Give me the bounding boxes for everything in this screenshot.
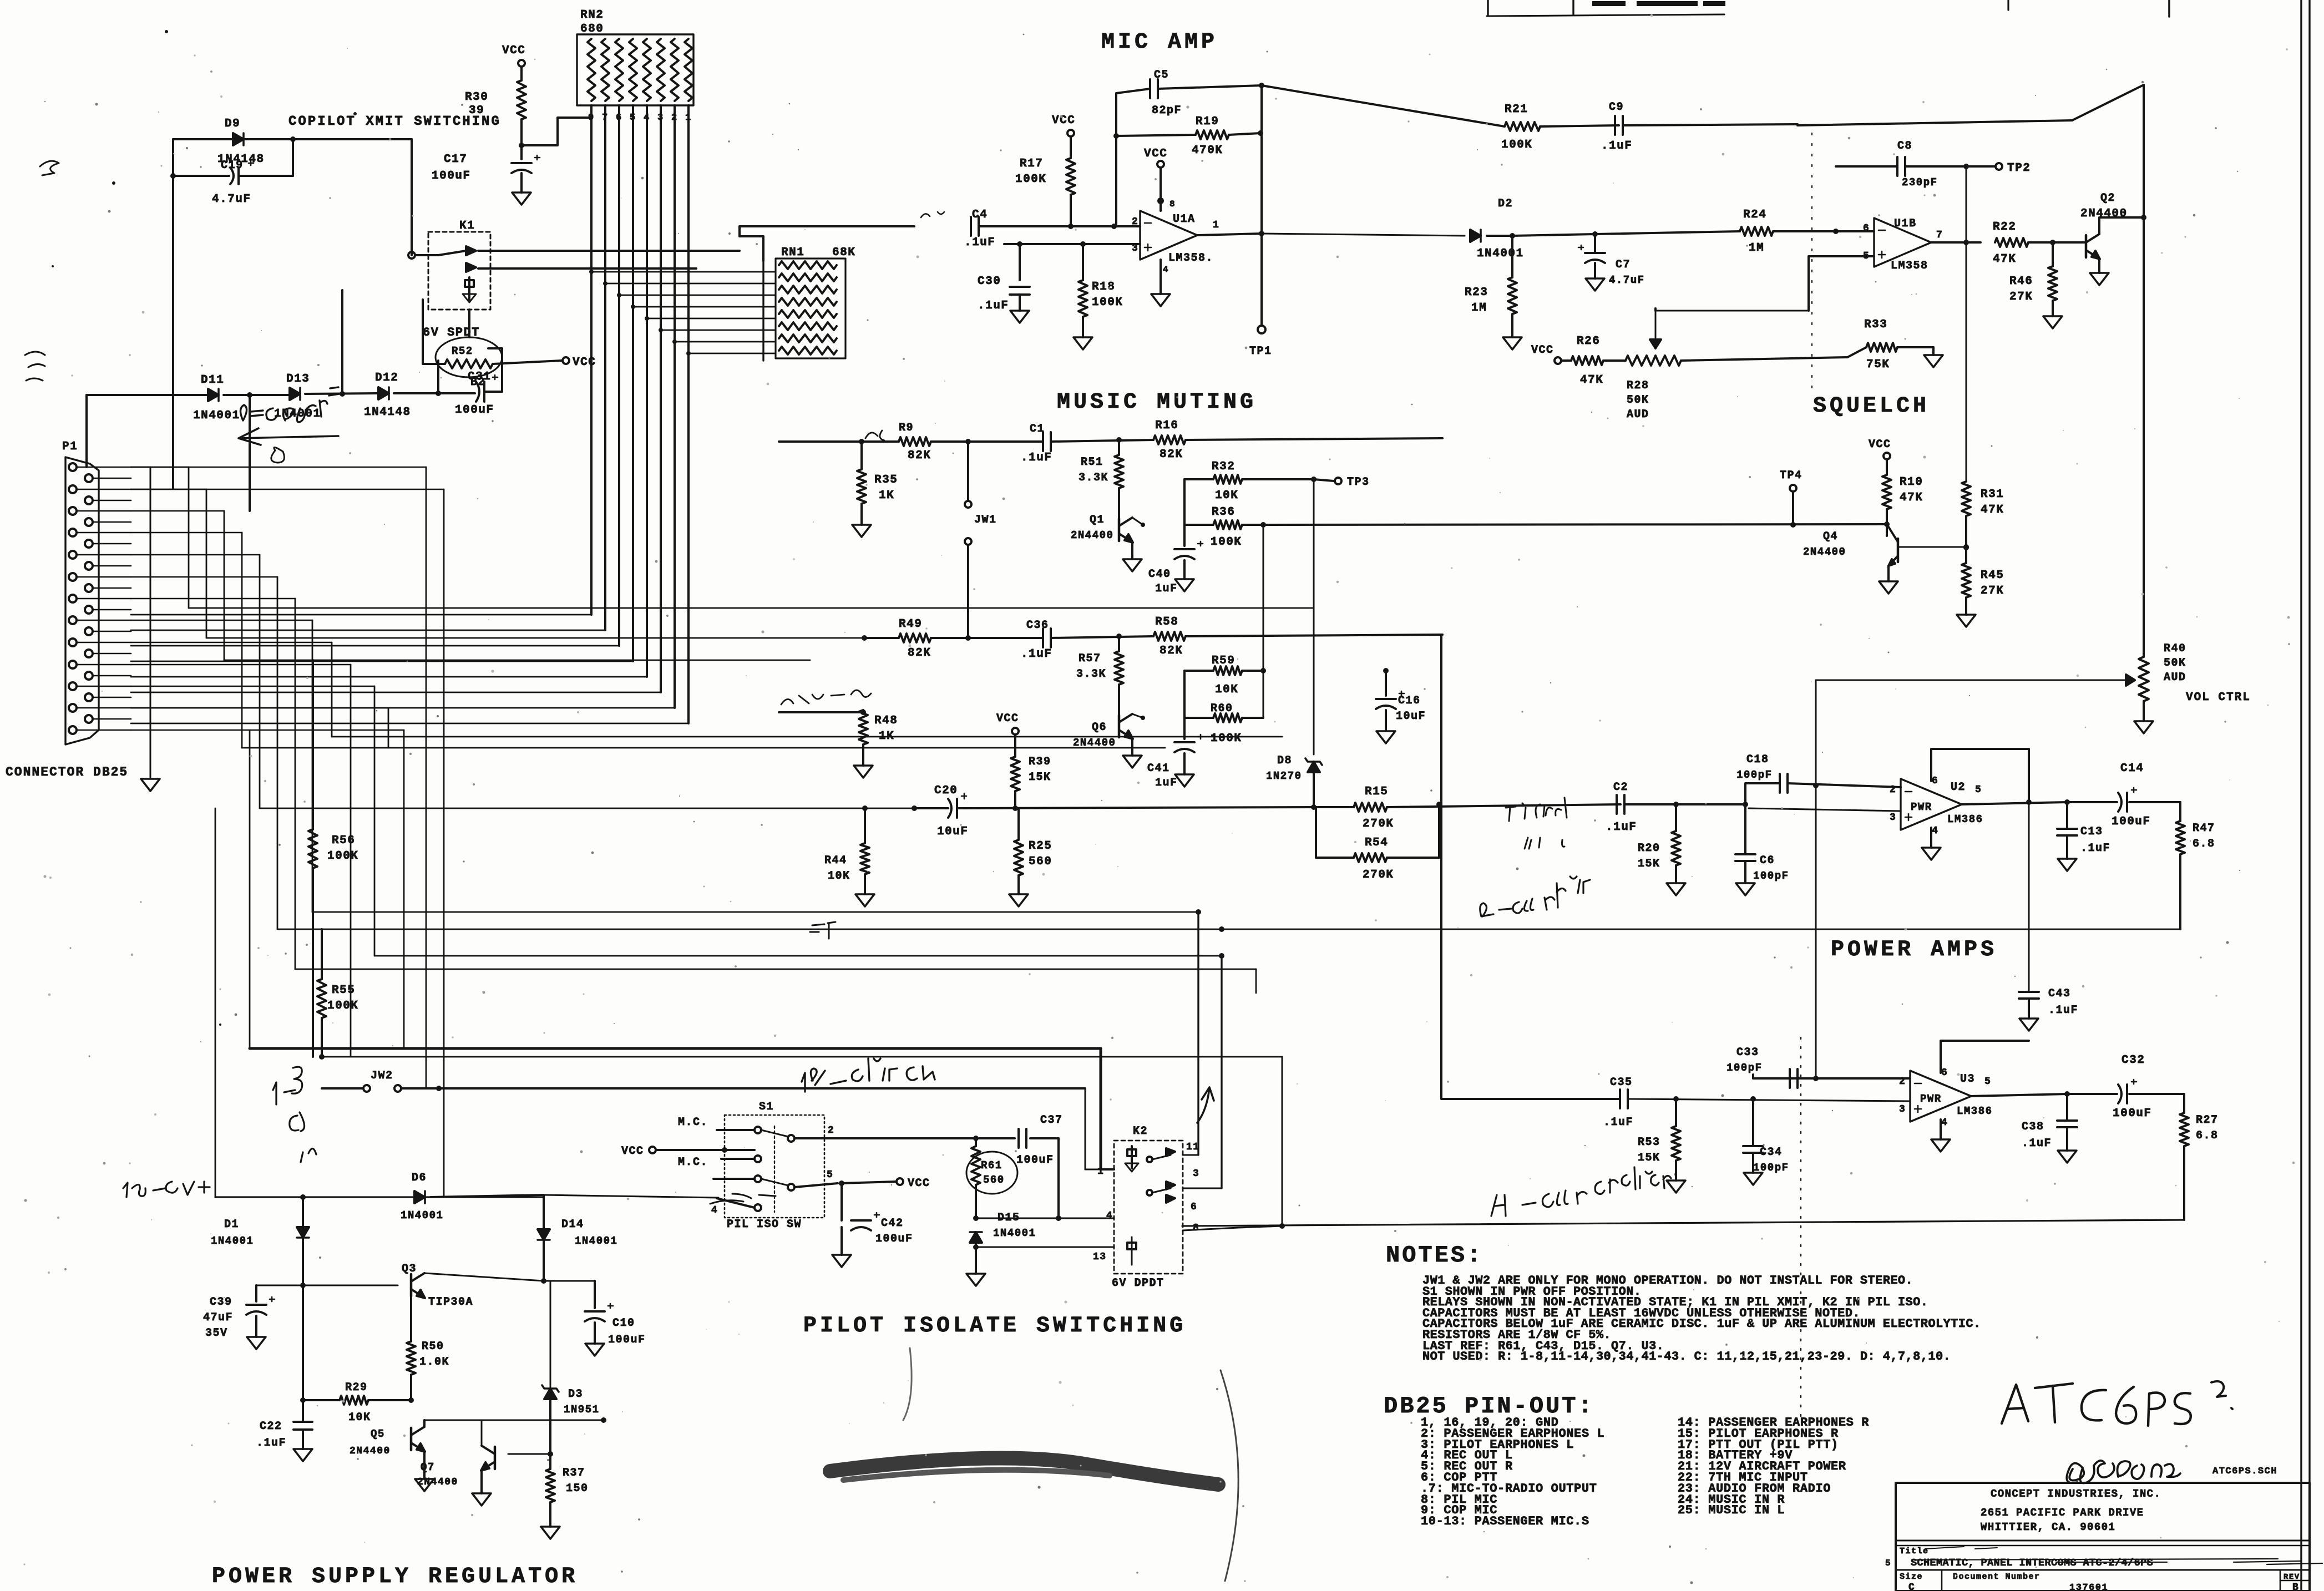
- capacitor C16 10uF: [1376, 668, 1426, 731]
- handwritten note: [40, 161, 59, 175]
- wire bus line: [242, 747, 1165, 749]
- ground: [2058, 859, 2077, 871]
- svg-text:.1uF: .1uF: [2022, 1137, 2052, 1150]
- K1 label 6V SPDT: [423, 326, 480, 340]
- svg-text:100pF: 100pF: [1753, 870, 1789, 882]
- svg-text:47K: 47K: [1900, 492, 1923, 504]
- svg-text:5: 5: [1975, 784, 1982, 796]
- handwritten scratch: [710, 1194, 776, 1204]
- ground: [2019, 1019, 2038, 1031]
- wire C8 feedback: [1833, 164, 1969, 234]
- svg-text:1N4001: 1N4001: [1477, 247, 1524, 260]
- wire audio line: [260, 808, 914, 809]
- resistor R16 82K: [1153, 419, 1442, 461]
- svg-text:R33: R33: [1864, 318, 1887, 331]
- svg-text:.1uF: .1uF: [1021, 648, 1052, 661]
- label pin 5: [827, 1169, 833, 1180]
- resistor R53 15K: [1638, 1096, 1680, 1180]
- svg-text:R47: R47: [2193, 822, 2215, 835]
- wire U2 pin4 gnd: [1930, 828, 1932, 848]
- svg-text:R16: R16: [1155, 419, 1178, 432]
- wire Q4 collector: [1899, 544, 1969, 550]
- resistor R17 100K: [1015, 136, 1075, 226]
- label CONNECTOR DB25: [6, 765, 128, 779]
- svg-text:LM386: LM386: [1947, 813, 1983, 825]
- svg-text:R18: R18: [1092, 281, 1115, 293]
- capacitor C10 100uF: [544, 1281, 646, 1346]
- svg-text:47K: 47K: [1993, 253, 2016, 266]
- potentiometer R40 50K AUD: [1816, 642, 2186, 721]
- wire K1 to R52: [423, 300, 469, 364]
- wire Q3 collector emitter: [411, 1273, 544, 1341]
- svg-text:D2: D2: [1498, 197, 1513, 210]
- svg-text:MUSIC MUTING: MUSIC MUTING: [1057, 390, 1257, 415]
- ground: [854, 766, 873, 778]
- svg-text:8: 8: [1169, 199, 1176, 209]
- svg-text:C8: C8: [1897, 140, 1912, 153]
- svg-text:C36: C36: [1026, 619, 1049, 632]
- wire U1B out: [1931, 166, 1981, 482]
- handwritten note: [25, 352, 45, 381]
- svg-text:C14: C14: [2120, 762, 2144, 775]
- op-amp U2 LM386 power amp: [1890, 776, 1983, 837]
- diode D2 1N4001: [1470, 197, 1524, 260]
- svg-text:1: 1: [1213, 220, 1219, 231]
- capacitor C19 4.7uF: [212, 159, 254, 206]
- svg-text:35V: 35V: [205, 1327, 228, 1340]
- switch S1: [725, 1101, 824, 1218]
- svg-text:.1uF: .1uF: [1601, 140, 1632, 153]
- ground: [2043, 316, 2062, 328]
- svg-text:6: 6: [1932, 776, 1938, 787]
- capacitor C30 .1uF: [978, 275, 1030, 312]
- svg-text:1: 1: [1097, 1166, 1104, 1177]
- diode D9 1N4148: [217, 118, 265, 166]
- svg-text:.1uF: .1uF: [1606, 821, 1637, 834]
- svg-text:PWR: PWR: [1911, 801, 1932, 813]
- svg-text:RN1: RN1: [781, 246, 804, 259]
- wire bus line: [312, 911, 1198, 913]
- wire U1A pin3: [1004, 241, 1140, 280]
- wire bus line: [206, 637, 864, 639]
- capacitor C32 100uF: [2067, 1054, 2184, 1120]
- svg-text:15K: 15K: [1029, 771, 1051, 784]
- wire verticals from diode row: [87, 139, 438, 511]
- svg-text:10uF: 10uF: [937, 825, 968, 838]
- svg-text:R52: R52: [452, 345, 473, 357]
- svg-text:VCC: VCC: [1869, 438, 1891, 451]
- wire S1 pin5 out: [794, 1180, 895, 1187]
- svg-text:100K: 100K: [1092, 296, 1123, 309]
- svg-text:K2: K2: [1133, 1125, 1148, 1138]
- svg-text:VCC: VCC: [502, 44, 525, 57]
- power VCC U1A bias: [1052, 114, 1075, 136]
- svg-text:R23: R23: [1465, 286, 1488, 299]
- svg-text:100K: 100K: [327, 1000, 358, 1012]
- wire U1B pin5: [1809, 256, 1874, 311]
- svg-text:82K: 82K: [908, 647, 931, 660]
- wire feedback vertical: [1260, 85, 1263, 234]
- svg-text:150: 150: [566, 1482, 589, 1495]
- capacitor C43 .1uF: [2019, 802, 2078, 1019]
- capacitor C6 100pF: [1735, 804, 1789, 883]
- ground: [1931, 1139, 1950, 1152]
- handwritten note 21-R5: [273, 1067, 316, 1162]
- svg-text:3.3K: 3.3K: [1076, 668, 1106, 681]
- svg-text:Q2: Q2: [2100, 192, 2115, 205]
- svg-text:D1: D1: [224, 1218, 239, 1231]
- svg-text:R37: R37: [563, 1467, 585, 1479]
- svg-text:RN2: RN2: [580, 9, 604, 22]
- svg-text:82K: 82K: [908, 449, 931, 462]
- label VOL CTRL: [2186, 691, 2251, 704]
- wire R61 bottom to K2: [976, 1129, 1114, 1218]
- svg-text:PIL ISO SW: PIL ISO SW: [727, 1218, 802, 1231]
- svg-text:.1uF: .1uF: [256, 1437, 286, 1450]
- svg-text:R9: R9: [899, 422, 914, 434]
- label 6V DPDT: [1112, 1277, 1164, 1290]
- capacitor C34 100pF: [1743, 1096, 1789, 1174]
- wire K1 right outputs: [490, 251, 740, 268]
- svg-text:U1B: U1B: [1894, 217, 1917, 230]
- svg-text:C22: C22: [260, 1420, 282, 1433]
- power VCC U1A pin8: [1144, 148, 1167, 211]
- ground: [1586, 278, 1604, 291]
- resistor network RN1 68K: [763, 246, 855, 361]
- svg-text:8: 8: [1193, 1223, 1199, 1234]
- handwritten note: [1506, 798, 1567, 821]
- resistor R44 10K: [824, 805, 869, 894]
- svg-text:D8: D8: [1277, 754, 1292, 767]
- svg-text:C16: C16: [1398, 695, 1421, 707]
- wire: [914, 865, 915, 929]
- ground: [1924, 355, 1943, 367]
- svg-text:R10: R10: [1900, 476, 1923, 489]
- svg-text:R61: R61: [981, 1159, 1002, 1172]
- page border right: [2301, 0, 2310, 1591]
- svg-text:SQUELCH: SQUELCH: [1813, 394, 1930, 419]
- wire battery to S1: [544, 1195, 718, 1198]
- svg-text:560: 560: [983, 1174, 1005, 1186]
- heading DB25 PIN-OUT:: [1384, 1393, 1594, 1420]
- svg-text:NOT USED: R: 1-8,11-14,30,34,4: NOT USED: R: 1-8,11-14,30,34,41-43. C: 1…: [1422, 1350, 1951, 1364]
- resistor R24 1M: [1595, 209, 1874, 255]
- ground: [852, 525, 871, 537]
- svg-text:D12: D12: [375, 372, 398, 384]
- ground: [1667, 1180, 1685, 1193]
- ground: [1957, 615, 1976, 627]
- diode D8 1N270: [1266, 754, 1322, 810]
- svg-text:C4: C4: [972, 209, 988, 221]
- diode D6 1N4001: [401, 1172, 544, 1222]
- wire U2 pin3: [1745, 808, 1901, 811]
- svg-text:C41: C41: [1147, 762, 1170, 775]
- svg-text:Title: Title: [1900, 1547, 1929, 1556]
- wire audio line: [277, 926, 2180, 932]
- svg-text:D13: D13: [286, 373, 310, 386]
- wire to volume: [2143, 217, 2145, 657]
- capacitor C13 .1uF: [2057, 802, 2110, 859]
- handwritten note 15-PIL 20K: [802, 1058, 935, 1092]
- svg-text:U1A: U1A: [1173, 213, 1196, 226]
- svg-text:WHITTIER, CA. 90601: WHITTIER, CA. 90601: [1981, 1521, 2115, 1533]
- wire U3 out: [1971, 1091, 2070, 1097]
- svg-text:100K: 100K: [1211, 732, 1242, 745]
- svg-text:3.3K: 3.3K: [1079, 472, 1108, 484]
- wire S1 pin2 out: [794, 1136, 979, 1141]
- svg-text:C13: C13: [2080, 825, 2103, 838]
- wire Q6 emitter: [1131, 738, 1133, 756]
- power VCC: [996, 712, 1019, 757]
- label M.C.: [678, 1156, 708, 1169]
- capacitor C5 82pF: [1150, 69, 1182, 117]
- svg-text:R46: R46: [2009, 275, 2033, 288]
- svg-text:R54: R54: [1365, 837, 1388, 849]
- svg-text:.1uF: .1uF: [964, 236, 995, 249]
- svg-text:POWER SUPPLY REGULATOR: POWER SUPPLY REGULATOR: [212, 1564, 578, 1589]
- svg-text:D14: D14: [561, 1218, 584, 1231]
- handwritten note 14-pass: [1491, 1167, 1675, 1216]
- resistor R54 270K: [1316, 802, 1442, 881]
- svg-text:Q6: Q6: [1092, 721, 1107, 734]
- wire Q7 emitter gnd: [480, 1470, 483, 1493]
- svg-text:1N4001: 1N4001: [993, 1227, 1036, 1239]
- svg-text:50K: 50K: [2164, 657, 2186, 670]
- svg-text:R29: R29: [345, 1381, 368, 1394]
- title row: [1885, 1547, 2322, 1569]
- ground: [1667, 883, 1685, 895]
- capacitor C42 100uF: [832, 1183, 913, 1255]
- svg-text:R20: R20: [1638, 842, 1660, 855]
- svg-text:D11: D11: [201, 374, 224, 387]
- resistor R49 82K: [862, 618, 1043, 660]
- svg-text:1N4001: 1N4001: [211, 1235, 254, 1247]
- svg-text:VCC: VCC: [1144, 148, 1167, 160]
- wire pilot line: [250, 731, 1101, 1169]
- svg-text:C30: C30: [978, 275, 1001, 288]
- power VCC: [1869, 438, 1891, 475]
- ground: [1376, 731, 1395, 743]
- svg-text:VCC: VCC: [1052, 114, 1075, 127]
- svg-text:TIP30A: TIP30A: [428, 1296, 473, 1309]
- handwritten arrow: [1197, 1087, 1214, 1123]
- svg-text:2N4400: 2N4400: [1073, 737, 1116, 749]
- connector P1 pins: [69, 463, 93, 734]
- test point TP2: [1966, 162, 2031, 175]
- ground: [832, 1255, 851, 1267]
- svg-text:.1uF: .1uF: [2048, 1004, 2078, 1017]
- svg-text:D9: D9: [225, 118, 240, 130]
- section title MIC AMP: [1101, 30, 1218, 55]
- svg-text:100K: 100K: [1501, 139, 1532, 151]
- svg-text:4: 4: [711, 1205, 718, 1216]
- svg-text:3: 3: [1193, 1168, 1199, 1179]
- capacitor C33 100pF: [1726, 1046, 1910, 1088]
- dotted fold line: [1811, 133, 1812, 388]
- resistor R22 47K: [1993, 221, 2086, 266]
- svg-text:R50: R50: [422, 1340, 444, 1353]
- resistor R39 15K: [1011, 756, 1051, 811]
- speck: [52, 30, 357, 1026]
- svg-text:U3: U3: [1960, 1073, 1975, 1086]
- svg-text:B2: B2: [470, 376, 485, 389]
- wire S1 nc stubs: [711, 1125, 755, 1216]
- svg-text:1N4001: 1N4001: [193, 409, 240, 422]
- svg-text:1.0K: 1.0K: [419, 1356, 449, 1369]
- RN2 pin wires: [131, 105, 691, 723]
- handwritten note: [1525, 838, 1564, 849]
- resistor R9 82K: [779, 422, 1043, 462]
- svg-text:.1uF: .1uF: [978, 300, 1009, 312]
- svg-text:4: 4: [1163, 265, 1169, 275]
- capacitor C20 10uF: [912, 784, 1316, 865]
- handwritten note 6=CopPTT: [240, 387, 340, 422]
- svg-text:6: 6: [1191, 1202, 1197, 1213]
- jumper JW2: [322, 1070, 1085, 1092]
- capacitor C1 .1uF: [1021, 423, 1153, 464]
- power VCC: [502, 44, 525, 67]
- svg-text:R32: R32: [1212, 460, 1235, 473]
- svg-text:VCC: VCC: [908, 1177, 930, 1190]
- relay K1: [408, 220, 499, 310]
- potentiometer R28 50K AUD: [1626, 308, 1847, 421]
- capacitor C37 100uF: [976, 1114, 1063, 1221]
- resistor R37 150: [546, 1454, 589, 1527]
- wire TP4 row: [1263, 524, 1887, 525]
- notes text: [1422, 1274, 1981, 1364]
- svg-text:PILOT ISOLATE SWITCHING: PILOT ISOLATE SWITCHING: [803, 1314, 1186, 1339]
- svg-text:137601: 137601: [2069, 1583, 2108, 1591]
- svg-text:C33: C33: [1736, 1046, 1759, 1059]
- wire R28 wiper to pin5: [1655, 310, 1809, 312]
- svg-text:LM358: LM358: [1891, 260, 1928, 272]
- capacitor C2 .1uF: [1606, 781, 1748, 834]
- svg-text:1M: 1M: [1749, 242, 1764, 255]
- svg-text:.1uF: .1uF: [1603, 1116, 1633, 1129]
- svg-text:R44: R44: [824, 854, 847, 867]
- resistor R61 560 circled: [966, 1146, 1017, 1221]
- svg-text:6: 6: [1941, 1067, 1948, 1078]
- wire connector fan-out bus: [131, 467, 444, 1197]
- svg-text:1uF: 1uF: [1155, 777, 1178, 789]
- ground: [855, 894, 874, 906]
- wire diode row: [87, 348, 502, 398]
- ground: [415, 1479, 434, 1491]
- svg-text:3: 3: [1890, 812, 1896, 823]
- wire bus line: [332, 736, 1282, 738]
- svg-text:10K: 10K: [1215, 489, 1238, 502]
- wire: [520, 173, 523, 192]
- capacitor C39 47uF 35V: [203, 1285, 275, 1340]
- wire: [1512, 231, 1598, 237]
- wire Q6 collector: [1132, 714, 1145, 720]
- svg-text:6.8: 6.8: [2196, 1129, 2219, 1142]
- svg-text:CONCEPT INDUSTRIES, INC.: CONCEPT INDUSTRIES, INC.: [1991, 1488, 2161, 1500]
- resistor R15 270K: [1316, 786, 1621, 830]
- wire output to TP1: [1249, 234, 1272, 358]
- svg-text:C6: C6: [1760, 854, 1775, 867]
- svg-text:1N4001: 1N4001: [401, 1209, 443, 1222]
- ground: [2090, 273, 2109, 285]
- svg-text:100pF: 100pF: [1736, 769, 1773, 781]
- svg-text:100uF: 100uF: [2112, 815, 2151, 828]
- svg-text:JW1: JW1: [974, 514, 997, 526]
- svg-text:C38: C38: [2022, 1121, 2044, 1133]
- svg-text:R39: R39: [1029, 756, 1051, 768]
- svg-text:2N4400: 2N4400: [350, 1446, 391, 1457]
- wire U3 feedback: [1941, 1041, 2029, 1094]
- svg-text:25: MUSIC IN L: 25: MUSIC IN L: [1678, 1503, 1785, 1517]
- capacitor C8 230pF: [1897, 140, 1938, 189]
- svg-text:D3: D3: [568, 1388, 583, 1401]
- svg-text:82K: 82K: [1160, 448, 1183, 461]
- svg-text:C42: C42: [881, 1217, 904, 1230]
- capacitor C22 .1uF: [256, 1400, 312, 1450]
- svg-text:R30: R30: [465, 91, 488, 104]
- wire bus line: [224, 660, 810, 661]
- handwritten ATC6PS: [2002, 1381, 2232, 1426]
- svg-text:POWER AMPS: POWER AMPS: [1831, 938, 1997, 962]
- svg-text:R55: R55: [332, 984, 355, 997]
- handwritten mark T: [810, 922, 836, 939]
- ground: [472, 1493, 491, 1506]
- wire TP3 bus: [1313, 479, 1315, 754]
- svg-text:1N4148: 1N4148: [364, 406, 411, 419]
- section title POWER AMPS: [1831, 938, 1997, 962]
- diode D11 1N4001: [193, 374, 240, 422]
- svg-text:C2: C2: [1613, 781, 1628, 794]
- svg-text:TP2: TP2: [2007, 162, 2031, 175]
- svg-text:1K: 1K: [879, 489, 894, 502]
- handwritten mark: [921, 212, 944, 217]
- dotted fold line: [1800, 1037, 1801, 1420]
- svg-text:100uF: 100uF: [875, 1233, 913, 1245]
- svg-text:COPILOT XMIT SWITCHING: COPILOT XMIT SWITCHING: [288, 114, 501, 129]
- marker smudge: [830, 1458, 1218, 1484]
- wire C19 stubs: [170, 139, 293, 179]
- svg-text:CONNECTOR DB25: CONNECTOR DB25: [6, 765, 128, 779]
- svg-text:K1: K1: [459, 220, 475, 232]
- resistor R60 100K: [1184, 525, 1263, 745]
- svg-text:1M: 1M: [1471, 302, 1487, 315]
- resistor R47 6.8: [2176, 821, 2215, 929]
- size doc rev row: [1900, 1572, 2300, 1591]
- resistor R32 10K: [1184, 460, 1317, 502]
- svg-text:R22: R22: [1993, 221, 2016, 234]
- wire mic input lines: [591, 272, 776, 353]
- svg-text:R51: R51: [1081, 456, 1103, 469]
- resistor R51 3.3K: [1079, 440, 1123, 518]
- svg-text:VCC: VCC: [996, 712, 1019, 725]
- svg-text:15K: 15K: [1638, 1152, 1660, 1164]
- wire mic bus: [1262, 234, 1465, 236]
- resistor R56 100K: [308, 660, 358, 1057]
- wire to squelch corner: [1798, 85, 2144, 217]
- resistor R55 100K: [317, 929, 358, 1060]
- svg-text:100K: 100K: [1015, 173, 1046, 186]
- wire Q1 collector: [1132, 518, 1145, 527]
- svg-text:10-13: PASSENGER MIC.S: 10-13: PASSENGER MIC.S: [1421, 1514, 1589, 1528]
- capacitor C4 .1uF: [964, 209, 1065, 249]
- svg-text:M.C.: M.C.: [678, 1156, 708, 1169]
- wire volume feed: [1815, 680, 1817, 1078]
- capacitor C35 .1uF: [1603, 1076, 1633, 1129]
- ground: [1151, 294, 1170, 306]
- svg-text:R49: R49: [899, 618, 922, 631]
- diode D12 1N4148: [364, 372, 411, 419]
- capacitor C14 100uF: [2067, 762, 2180, 828]
- svg-text:Size: Size: [1900, 1572, 1923, 1582]
